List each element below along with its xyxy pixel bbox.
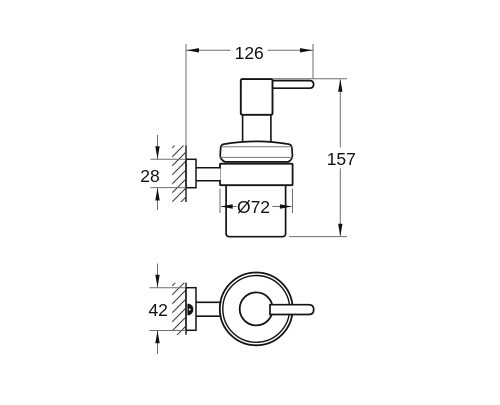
dimension 42 xyxy=(148,264,186,355)
pump neck (side view) xyxy=(243,115,271,142)
wall line (side view) xyxy=(185,146,187,203)
lid dome (side view) xyxy=(220,141,292,161)
wall hatching (side view) xyxy=(171,132,188,221)
dimension 126 xyxy=(186,43,313,63)
svg-text:126: 126 xyxy=(235,43,264,63)
holder ring (side view) xyxy=(220,164,293,186)
extension line right of 126 dimension xyxy=(312,44,314,79)
extension line bottom of 157 dimension xyxy=(289,236,347,238)
svg-text:157: 157 xyxy=(327,149,356,169)
wall line (top view) xyxy=(185,283,187,335)
svg-text:42: 42 xyxy=(148,300,167,320)
pump circle (top view) xyxy=(240,292,273,325)
dimension diameter 72 xyxy=(221,197,292,217)
extension lines of diameter 72 xyxy=(220,189,293,214)
fixing detail (top view) xyxy=(187,304,193,315)
dimension 28 xyxy=(140,135,186,210)
wall mount block (top view) xyxy=(186,288,196,331)
dimension 157 xyxy=(327,79,356,236)
wall mount block (side view) xyxy=(186,159,196,187)
holder ring outer circle (top view) xyxy=(220,273,293,346)
svg-text:28: 28 xyxy=(140,166,159,186)
support arm (side view) xyxy=(196,168,221,181)
glass tumbler (side view) xyxy=(226,186,286,237)
spout (side view) xyxy=(269,81,314,89)
svg-text:Ø72: Ø72 xyxy=(237,197,270,217)
extension line left of 126 dimension (wall line extended) xyxy=(185,44,187,146)
wall hatching (top view) xyxy=(171,270,188,350)
pump body (side view) xyxy=(241,79,273,115)
spout (top view) xyxy=(270,305,314,315)
support arm (top view) xyxy=(196,302,222,316)
holder ring inner circle (top view) xyxy=(223,276,290,343)
extension line top of 157 dimension xyxy=(273,78,348,80)
